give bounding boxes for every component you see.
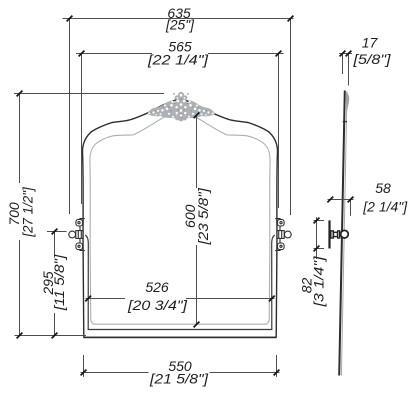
tick 526 right <box>269 296 275 302</box>
tick 700 top <box>17 91 23 97</box>
svg-text:[3 1/4"]: [3 1/4"] <box>311 255 327 307</box>
tick 635 right <box>288 16 294 22</box>
tick 82 top <box>314 218 320 224</box>
58 dim line <box>328 199 354 201</box>
tick 526 left <box>85 296 91 302</box>
295 top ext <box>47 231 67 233</box>
17 ext left <box>342 54 344 75</box>
labels side <box>298 34 408 307</box>
565 ext left <box>81 54 83 205</box>
svg-text:58: 58 <box>375 180 391 196</box>
labels front <box>6 5 211 386</box>
82 ext top <box>314 220 325 222</box>
side arm blocks <box>331 231 340 238</box>
550 ext right <box>276 355 278 377</box>
635 dim line <box>63 18 294 20</box>
tick 295 bottom <box>52 333 58 339</box>
17 ext right <box>348 54 350 86</box>
svg-text:[27 1/2"]: [27 1/2"] <box>20 186 36 238</box>
svg-text:17: 17 <box>362 34 379 50</box>
700 top ext <box>14 93 164 95</box>
565 ext right <box>278 54 280 209</box>
82 ext bottom <box>314 248 325 250</box>
side bracket plate <box>328 220 330 248</box>
svg-text:[2 1/4"]: [2 1/4"] <box>362 198 408 214</box>
550 dim line <box>81 372 280 374</box>
svg-text:[25"]: [25"] <box>165 17 195 33</box>
svg-text:[5/8"]: [5/8"] <box>352 51 391 67</box>
tick 600 bottom <box>194 322 200 328</box>
side joint tick <box>343 121 347 123</box>
side mirror profile <box>339 91 349 376</box>
58 ext right <box>350 200 352 216</box>
565 dim line <box>76 53 284 55</box>
17 dim line <box>339 53 352 55</box>
tick 17 right <box>346 51 352 57</box>
82 dim line <box>316 217 318 259</box>
side pivot circle <box>341 230 349 238</box>
mirror outer outline <box>82 100 277 338</box>
tick 565 right <box>276 51 282 57</box>
tick 82 bottom <box>314 246 320 252</box>
svg-text:[22 1/4"]: [22 1/4"] <box>147 51 209 67</box>
left bracket <box>69 219 85 251</box>
635 ext right <box>290 19 292 216</box>
mirror inner dark moulding (below brackets) <box>85 235 275 329</box>
side crest wedge <box>345 92 349 113</box>
crest ornament <box>147 92 215 122</box>
tick 700 bottom <box>17 333 23 339</box>
svg-text:[23 5/8"]: [23 5/8"] <box>195 187 211 246</box>
svg-text:[20 3/4"]: [20 3/4"] <box>127 297 188 313</box>
svg-text:[21 5/8"]: [21 5/8"] <box>149 370 209 386</box>
svg-text:[11 5/8"]: [11 5/8"] <box>51 254 67 312</box>
295 dim line <box>54 232 56 336</box>
tick 58 right <box>348 197 354 203</box>
tick 600 top <box>194 112 200 118</box>
700 dim line <box>19 94 21 336</box>
tick 550 right <box>274 370 280 376</box>
mirror inner light bevel line <box>90 112 270 324</box>
mirror bottom outer edge <box>84 336 276 338</box>
526 dim line <box>86 298 275 300</box>
tick 565 left <box>79 51 85 57</box>
tick 295 top <box>52 229 58 235</box>
tick 58 left <box>327 197 333 203</box>
635 ext left <box>69 19 71 215</box>
tick 550 left <box>81 370 87 376</box>
svg-text:526: 526 <box>145 279 169 295</box>
tick 17 left <box>340 51 346 57</box>
700/295 bottom ext <box>15 335 87 337</box>
600 dim line <box>196 115 198 324</box>
550 ext left <box>83 355 85 377</box>
tick 635 left <box>67 16 73 22</box>
right bracket <box>275 219 291 251</box>
